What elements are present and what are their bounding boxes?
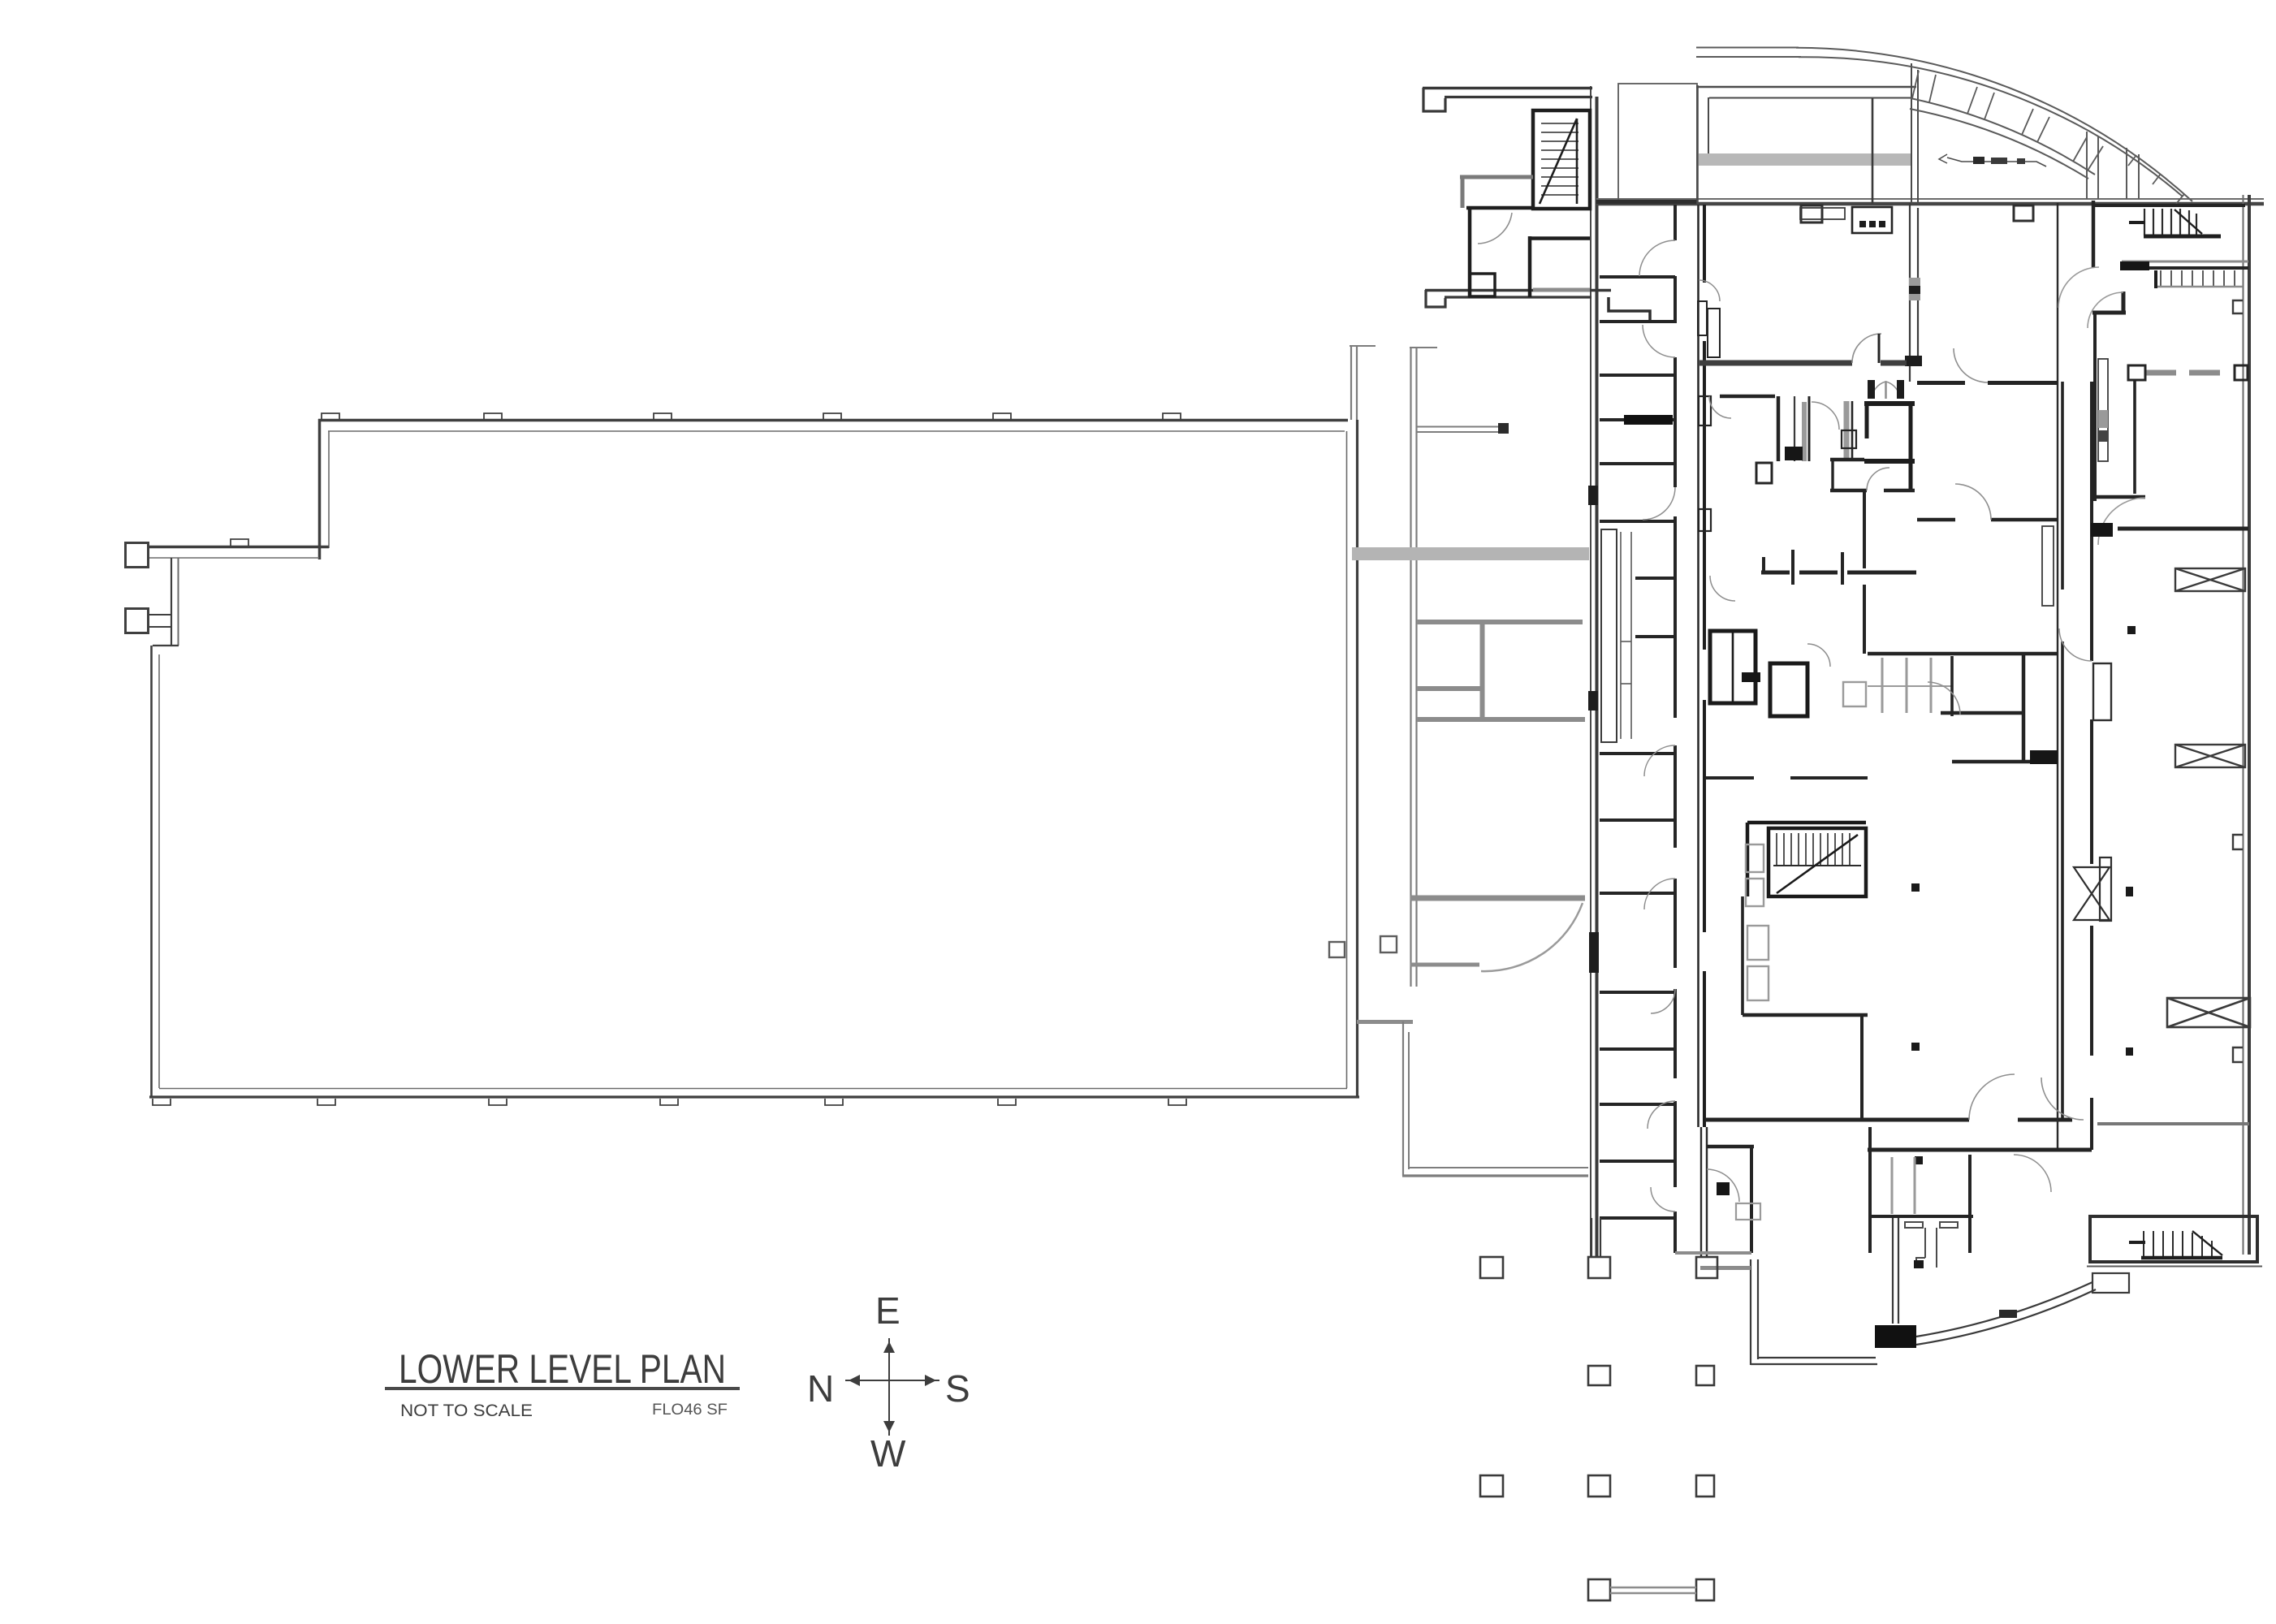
door arc right low room (2014, 1155, 2051, 1192)
black rect on curve (1875, 1325, 1916, 1348)
column r4c2 (1588, 1579, 1610, 1600)
door stop dots (2127, 626, 2136, 634)
vertical x2334 (1892, 1218, 1894, 1324)
door arc center (1812, 402, 1839, 430)
corridor wall boxes lower (1699, 396, 1711, 425)
north room top outer (1696, 86, 1916, 89)
toilet stalls gray right (1881, 658, 1884, 713)
partition y571 (1600, 462, 1675, 465)
wall y565 left (1830, 458, 1864, 462)
wall hall left step horizontal (147, 546, 329, 549)
step wall right of wing (1609, 297, 1650, 322)
column r1c1 (1480, 1257, 1503, 1278)
room A left wall end block (1905, 356, 1922, 366)
door stop dots mid (1911, 883, 1920, 892)
left vertical bottom block (1868, 1127, 1872, 1253)
NE room bottom double wall (2122, 261, 2248, 263)
door arc room A1 (1478, 213, 1512, 244)
wall gray vertical C (1480, 622, 1485, 719)
partition y642 (1600, 520, 1675, 523)
T mark (1905, 1222, 1958, 1228)
narrow fixture right (1844, 401, 1850, 459)
NE stair landing wall (2129, 221, 2145, 224)
partition y1222 (1600, 991, 1675, 994)
jog (153, 645, 179, 646)
gray band in north room (1699, 153, 1911, 166)
vertical x2296 (1863, 490, 1866, 654)
wall vertical between squares (171, 558, 172, 646)
SW wing left wall (1402, 1021, 1404, 1176)
black bits left of B1 (1742, 672, 1760, 682)
SW wing bottom wall (1409, 1167, 1588, 1168)
partition y462 (1600, 374, 1675, 377)
wall y488 (1720, 395, 1775, 399)
wall gray vertical B (1410, 347, 1411, 987)
heavy room B2 (1770, 663, 1807, 716)
wall y1250 (1743, 1013, 1868, 1017)
SE stair room (2090, 1216, 2257, 1262)
bar between bottom columns (1610, 1587, 1696, 1593)
wall west outer (1590, 86, 1591, 1257)
corridor door leaves (1699, 280, 1720, 301)
wall hall top outer (318, 419, 1348, 422)
black rect (1717, 1182, 1730, 1195)
stair shaft NW (1533, 110, 1590, 209)
NE stair room top wall (2093, 204, 2245, 207)
wall y604 (1830, 489, 1915, 493)
vertical x2190 (1777, 396, 1781, 461)
wall x2629 vertical (2133, 379, 2136, 494)
tick marks top wall (322, 413, 1181, 420)
svg-text:NOT TO SCALE: NOT TO SCALE (400, 1402, 533, 1420)
corridor top wall (1596, 200, 1697, 204)
wall hall left lower vertical (150, 646, 153, 1098)
annotation squiggle with leader (1947, 158, 2046, 166)
small fixture square (1756, 463, 1772, 483)
heavy room B1 (1710, 631, 1756, 703)
partition y712 short (1635, 577, 1675, 580)
room A2 walls (1528, 236, 1532, 297)
door arc big room (1852, 334, 1881, 363)
vestibule glass box NW (1618, 84, 1697, 201)
wall hall upper-left vertical (318, 419, 322, 559)
room A bottom wall (1917, 381, 2058, 385)
door arc bottom mid (1707, 1169, 1739, 1202)
corridor east wall of strip (1674, 205, 1677, 1253)
partition y928 (1600, 752, 1675, 755)
fixture cabinet with dots (1852, 207, 1892, 233)
small square left of west wall (1329, 942, 1345, 957)
wall y805 right (1868, 652, 2058, 656)
black rect at corridor bottom (2091, 523, 2113, 537)
NE stair diagonal (2175, 209, 2202, 234)
door arc toilet (1928, 682, 1960, 715)
door arc room A (1954, 348, 1988, 382)
vertical x2157 (1750, 1147, 1753, 1253)
dashed brace line (2145, 370, 2233, 376)
wall y1412 (1707, 1145, 1754, 1149)
wall y640 below room A (1917, 518, 2058, 522)
column r3c2 (1588, 1475, 1610, 1497)
title underline (385, 1387, 740, 1390)
north room top inner (1709, 97, 1911, 99)
stair diagonal NW (1540, 119, 1577, 204)
partition y1100 (1600, 892, 1675, 895)
big north-mid room bottom wall (1699, 361, 1907, 366)
gray wall stub y1543 (1675, 1251, 1751, 1255)
wall NW hook top (1423, 87, 1592, 89)
column notch east wall upper (2233, 300, 2243, 313)
twin tangent lines top (1696, 47, 1799, 49)
narrow door strip (2042, 526, 2054, 606)
ticks bottom wall (153, 1099, 1186, 1105)
door arc at y640 (1955, 484, 1991, 520)
wall east outer (2243, 195, 2244, 1255)
gray cluster (1843, 682, 1866, 706)
partition y396 (1600, 320, 1675, 323)
partition y1010 (1600, 818, 1675, 822)
svg-text:LOWER LEVEL PLAN: LOWER LEVEL PLAN (399, 1346, 726, 1392)
toilet fixtures left of stair (1746, 844, 1764, 872)
partition y1292 (1600, 1047, 1675, 1051)
stair treads NW (1541, 123, 1579, 195)
closet NW (1470, 274, 1495, 296)
svg-text:E: E (875, 1289, 900, 1332)
partition y1500 (1600, 1216, 1675, 1220)
svg-text:N: N (807, 1367, 834, 1410)
column r1c3 (1696, 1257, 1717, 1278)
partition y1360 (1600, 1103, 1675, 1106)
wall gray y1106 (1410, 896, 1585, 901)
wing corner walls above r1c2 (1591, 1218, 1600, 1257)
partition y784 short (1635, 635, 1675, 638)
vertical x2293 low (1860, 1015, 1864, 1121)
wall hall right (1356, 420, 1358, 1098)
column r2c3 (1696, 1366, 1714, 1385)
gray fixtures (1736, 1203, 1760, 1220)
heavy room right walls (1864, 401, 1915, 406)
partition y341 (1600, 275, 1675, 279)
door arcs strip (1639, 240, 1675, 1212)
gray line from wing corner to col (1700, 1266, 1751, 1270)
column r4c3 (1696, 1579, 1714, 1600)
mullion pair right of room (1911, 63, 1912, 204)
wall y1377 across with gaps (1705, 1118, 2072, 1122)
wall hall bottom (149, 1095, 1359, 1098)
door arcs up at y1377 (1969, 1074, 2015, 1120)
door arc NE room (2058, 267, 2099, 308)
door arcs mid low (1710, 576, 1735, 601)
center tall fixture (1794, 396, 1795, 461)
butterfly double door (1872, 382, 1885, 399)
room A left wall double (1909, 203, 1911, 382)
wall north band main (1596, 198, 2264, 200)
east big room left jog wall (2122, 292, 2126, 312)
square bump upper left (126, 543, 149, 568)
partition y517 black fill (1600, 418, 1675, 421)
scissor stair block (1769, 828, 1866, 896)
wall y705 across (1761, 571, 1916, 575)
room below stair gray fixtures (1747, 926, 1769, 960)
north room right wall (1872, 98, 1874, 204)
toilet stalls bottom (1891, 1157, 1894, 1214)
east room bottom wall (2092, 495, 2145, 499)
wall stub below north band right (2014, 205, 2033, 221)
tick row 2 below (2161, 270, 2235, 287)
corridor continuation to bottom block (2057, 1118, 2058, 1150)
column r1c2 (1588, 1257, 1610, 1278)
room A left wall panel (1909, 278, 1920, 300)
NE stair treads row1 (2144, 209, 2196, 235)
curved wing wall (1916, 1282, 2092, 1337)
east wall y651 (2118, 527, 2248, 531)
fixture rect in big room top (1800, 208, 1845, 219)
svg-text:FLO46 SF: FLO46 SF (652, 1402, 728, 1419)
wall y1416 (1868, 1148, 2092, 1152)
bottom middle cluster (1700, 1127, 1702, 1257)
corridor west wall pair (1697, 205, 1699, 1127)
wall gray thick band y682 (1352, 547, 1589, 560)
svg-text:W: W (870, 1432, 906, 1475)
toilet walls dark (1950, 656, 1954, 716)
tick on step wall (231, 539, 248, 546)
wall stub below north band left (1801, 205, 1822, 222)
SW wing top stub (1357, 1020, 1413, 1024)
sidelight tall rect (2098, 359, 2108, 461)
partition y1430 (1600, 1160, 1675, 1163)
SE stair treads (2144, 1231, 2212, 1258)
column r2c2 (1588, 1366, 1610, 1385)
door arc large gray (1481, 903, 1583, 971)
X box 2 (2175, 745, 2245, 767)
door arc into big room (2088, 292, 2123, 328)
bump rect on curve top (2092, 1273, 2129, 1293)
curved band outer arcs (1796, 48, 2192, 201)
band end stubs (2086, 132, 2088, 199)
corridor east pair walls (2057, 203, 2058, 1118)
wall hall top inner (328, 430, 1345, 432)
gray wall right low (2097, 1122, 2249, 1125)
wall gray y848 (1417, 686, 1482, 691)
pilaster blobs on west wall (1588, 486, 1598, 505)
wall NW wing lower band (1425, 289, 1611, 292)
X box 3 (2167, 998, 2250, 1027)
door leaf on corridor (2093, 663, 2111, 720)
wall gray branch y528 with dark tip (1417, 426, 1502, 428)
hourglass door symbol (2074, 867, 2110, 920)
room A1 walls gray (1460, 175, 1533, 179)
svg-text:S: S (945, 1367, 970, 1410)
SE wing left boundary (1750, 1259, 1751, 1365)
wall gray spur above hall corner (1350, 345, 1352, 420)
column r3c3 (1696, 1475, 1714, 1497)
column r3c1 (1480, 1475, 1503, 1497)
mullions radial (1912, 71, 2184, 204)
ramp double rect (1601, 529, 1617, 742)
stair side walls (1746, 823, 1750, 896)
compass cross (845, 1338, 939, 1436)
SE wing bottom horizontals (1751, 1363, 1877, 1365)
square bump lower left (126, 609, 149, 633)
X box 1 (2175, 568, 2245, 591)
north room left verts (1696, 85, 1699, 205)
column notch east wall lower (2233, 1047, 2243, 1062)
wall gray y886 (1417, 717, 1585, 722)
room A1 dark walls (1466, 206, 1533, 210)
column notch east wall mid (2233, 835, 2243, 849)
wall gray y766 (1417, 620, 1583, 624)
wall y958 (1705, 776, 1868, 780)
curved band inner arcs (1911, 98, 2095, 175)
wall gray y1188 (1410, 963, 1479, 967)
door arc at room bottom (2098, 498, 2145, 545)
